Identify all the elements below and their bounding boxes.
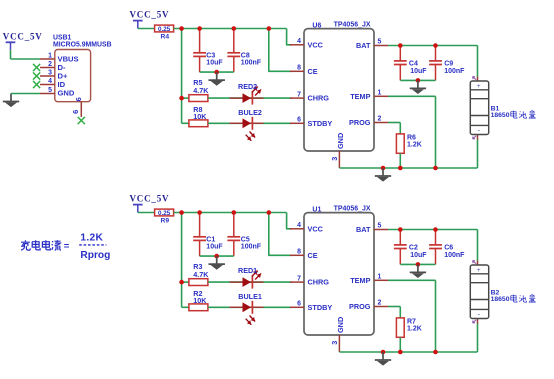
svg-text:TP4056_JX: TP4056_JX (334, 22, 371, 29)
pin 5 GND (40, 93, 55, 95)
no-connect pin 6 (78, 117, 85, 124)
svg-text:6: 6 (297, 301, 301, 308)
capacitor C1 10uF (199, 213, 201, 237)
svg-text:STDBY: STDBY (308, 119, 333, 128)
pin 7 CHRG (290, 281, 304, 283)
wire (208, 122, 292, 124)
capacitor C5 100nF (233, 213, 235, 237)
LED BULE2 blue (230, 122, 264, 124)
wire BAT to battery (388, 45, 478, 47)
svg-text:Rprog: Rprog (80, 250, 110, 261)
svg-text:+: + (477, 268, 481, 274)
svg-text:18650: 18650 (491, 296, 510, 303)
ground USB (10, 93, 12, 96)
pin 4 VCC (290, 44, 304, 46)
wire PROG (388, 306, 400, 308)
capacitor C9 100nF (435, 46, 437, 61)
svg-text:C5: C5 (241, 236, 250, 243)
junction GND rail (381, 350, 386, 355)
svg-text:BAT: BAT (356, 225, 371, 234)
resistor R6 1.2K (396, 134, 404, 153)
svg-text:2: 2 (48, 61, 52, 68)
svg-text:7: 7 (297, 275, 301, 282)
svg-text:TP4056_JX: TP4056_JX (334, 206, 371, 213)
svg-text:1: 1 (48, 52, 52, 59)
svg-text:18650: 18650 (491, 112, 510, 119)
wire GND pin5 (11, 93, 40, 95)
op-amp U1 TP4056_JX charger IC (304, 213, 374, 335)
ground (216, 72, 218, 79)
svg-text:C1: C1 (206, 236, 215, 243)
wire VBUS (11, 58, 41, 60)
wire VCC rail (174, 212, 287, 214)
LED RED1 red (230, 281, 264, 283)
resistor R4 0.25 (155, 25, 174, 32)
svg-text:RED1: RED1 (238, 266, 257, 275)
pin 4 VCC (290, 228, 304, 230)
pin 3 GND (338, 151, 340, 168)
wire (138, 212, 155, 214)
LED RED2 red (230, 97, 264, 99)
svg-text:1: 1 (378, 90, 382, 97)
ground BAT caps (417, 264, 419, 271)
wire (200, 255, 234, 257)
pin 1 TEMP (374, 279, 388, 281)
svg-text:6: 6 (74, 97, 83, 101)
svg-text:3: 3 (330, 341, 339, 345)
capacitor C6 100nF (435, 230, 437, 245)
svg-text:0.25: 0.25 (158, 26, 171, 33)
svg-text:7: 7 (297, 91, 301, 98)
connector USB1 MICRO5.9MMUSB (55, 50, 91, 102)
svg-text:0.25: 0.25 (158, 210, 171, 217)
svg-text:1: 1 (378, 274, 382, 281)
junction BAT caps (398, 227, 403, 232)
svg-text:TEMP: TEMP (350, 276, 370, 285)
pin 6 shield (80, 102, 82, 117)
svg-text:6: 6 (297, 117, 301, 124)
capacitor C4 10uF (399, 46, 401, 61)
pin 2 D- (40, 67, 55, 69)
svg-text:C3: C3 (206, 52, 215, 59)
ground rail (382, 352, 384, 359)
svg-text:5: 5 (48, 87, 52, 94)
svg-text:CHRG: CHRG (308, 94, 330, 103)
wire (138, 28, 155, 30)
pin 7 CHRG (290, 97, 304, 99)
wire (208, 306, 292, 308)
wire (208, 97, 292, 99)
svg-text:BULE2: BULE2 (238, 108, 262, 117)
svg-text:PROG: PROG (349, 302, 371, 311)
pin 5 BAT (374, 45, 388, 47)
capacitor C8 100nF (233, 29, 235, 53)
svg-text:=: = (64, 241, 70, 252)
svg-text:VCC_5V: VCC_5V (130, 194, 170, 204)
junction (214, 70, 219, 75)
capacitor C3 10uF (199, 29, 201, 53)
junction GND rail (381, 166, 386, 171)
svg-text:C8: C8 (241, 52, 250, 59)
svg-text:PROG: PROG (349, 118, 371, 127)
wire (400, 79, 435, 81)
svg-text:100nF: 100nF (444, 252, 465, 259)
svg-text:10K: 10K (193, 296, 207, 305)
junction BAT caps (398, 43, 403, 48)
no-connect pin 2 (33, 64, 40, 71)
svg-text:2: 2 (378, 300, 382, 307)
no-connect pin 4 (33, 81, 40, 88)
svg-text:U6: U6 (312, 22, 321, 29)
svg-text:R7: R7 (407, 318, 416, 325)
pin 6 STDBY (290, 122, 304, 124)
svg-text:USB1: USB1 (53, 35, 72, 42)
pin 6 STDBY (290, 306, 304, 308)
pin 5 BAT (374, 229, 388, 231)
svg-text:10uF: 10uF (206, 244, 223, 251)
svg-text:GND: GND (336, 133, 345, 149)
svg-text:1.2K: 1.2K (407, 141, 422, 148)
svg-text:8: 8 (297, 65, 301, 72)
svg-text:C6: C6 (444, 245, 453, 252)
svg-text:CE: CE (308, 251, 318, 260)
svg-text:VCC: VCC (308, 224, 324, 233)
wire VCC rail (174, 28, 287, 30)
svg-text:1.2K: 1.2K (407, 325, 422, 332)
svg-text:BAT: BAT (356, 41, 371, 50)
svg-text:2: 2 (378, 116, 382, 123)
svg-text:4.7K: 4.7K (193, 270, 209, 279)
svg-text:5: 5 (378, 223, 382, 230)
wire LED feed column (181, 213, 183, 308)
wire CE to VCC rail (269, 213, 292, 256)
svg-text:100nF: 100nF (444, 68, 465, 75)
pin 8 CE (290, 70, 304, 72)
svg-text:CE: CE (308, 67, 318, 76)
pin 1 TEMP (374, 95, 388, 97)
junction (416, 262, 421, 267)
pin 2 PROG (374, 306, 388, 308)
wire TEMP to GND rail (388, 95, 436, 97)
svg-text:R6: R6 (407, 134, 416, 141)
pin 8 CE (290, 254, 304, 256)
svg-text:CHRG: CHRG (308, 278, 330, 287)
wire TEMP to GND rail (388, 279, 436, 281)
ground (216, 256, 218, 263)
resistor R3 4.7K (189, 279, 208, 286)
wire (208, 281, 292, 283)
wire GND rail (339, 351, 477, 353)
svg-text:5: 5 (378, 39, 382, 46)
svg-text:3: 3 (48, 69, 52, 76)
battery B1 18650 holder (477, 77, 479, 82)
svg-text:8: 8 (297, 249, 301, 256)
svg-text:10uF: 10uF (410, 252, 427, 259)
junction rail (179, 210, 184, 215)
wire GND rail (339, 167, 477, 169)
svg-text:GND: GND (58, 89, 75, 98)
pin 3 D+ (40, 75, 55, 77)
svg-text:TEMP: TEMP (350, 92, 370, 101)
svg-text:1.2K: 1.2K (80, 232, 103, 243)
svg-text:4.7K: 4.7K (193, 86, 209, 95)
pin 4 ID (40, 84, 55, 86)
no-connect pin 3 (33, 72, 40, 79)
resistor R8 10K (189, 120, 208, 127)
LED BULE1 blue (230, 306, 264, 308)
svg-text:4: 4 (297, 38, 301, 45)
ground BAT caps (417, 80, 419, 87)
pin 1 VBUS (40, 58, 55, 60)
svg-text:4: 4 (48, 78, 52, 85)
svg-text:C9: C9 (444, 61, 453, 68)
wire LED feed column (181, 29, 183, 124)
junction (416, 78, 421, 83)
resistor R9 0.25 (155, 209, 174, 216)
svg-text:100nF: 100nF (241, 244, 262, 251)
svg-text:6: 6 (71, 110, 80, 114)
svg-text:MICRO5.9MMUSB: MICRO5.9MMUSB (53, 42, 112, 49)
pin 3 GND (338, 335, 340, 352)
resistor R2 10K (189, 304, 208, 311)
op-amp U6 TP4056_JX charger IC (304, 29, 374, 151)
wire PROG (388, 122, 400, 124)
svg-text:C4: C4 (409, 61, 418, 68)
capacitor C2 10uF (399, 230, 401, 245)
svg-text:C2: C2 (409, 245, 418, 252)
svg-text:R4: R4 (161, 34, 170, 41)
junction LED column (179, 96, 184, 101)
svg-text:RED2: RED2 (238, 82, 257, 91)
junction LED column (179, 280, 184, 285)
svg-text:VCC_5V: VCC_5V (3, 31, 43, 41)
wire BAT to battery (388, 229, 478, 231)
wire (200, 71, 234, 73)
wire CE to VCC rail (269, 29, 292, 72)
svg-text:10uF: 10uF (206, 60, 223, 67)
svg-text:GND: GND (336, 317, 345, 333)
svg-text:3: 3 (330, 157, 339, 161)
svg-text:100nF: 100nF (241, 60, 262, 67)
wire (400, 263, 435, 265)
resistor R5 4.7K (189, 95, 208, 102)
junction (214, 254, 219, 259)
formula charge current = 1.2K / Rprog (21, 240, 30, 250)
ground rail (382, 168, 384, 175)
battery B2 18650 holder (477, 261, 479, 266)
svg-text:4: 4 (297, 222, 301, 229)
svg-text:R9: R9 (161, 218, 170, 225)
svg-text:BULE1: BULE1 (238, 292, 262, 301)
svg-text:U1: U1 (312, 206, 321, 213)
resistor R7 1.2K (396, 318, 404, 337)
svg-text:10K: 10K (193, 112, 207, 121)
svg-text:+: + (477, 84, 481, 90)
junction rail (179, 26, 184, 31)
svg-text:STDBY: STDBY (308, 303, 333, 312)
svg-text:VCC_5V: VCC_5V (130, 10, 170, 20)
svg-text:VCC: VCC (308, 40, 324, 49)
svg-text:10uF: 10uF (410, 68, 427, 75)
pin 2 PROG (374, 122, 388, 124)
